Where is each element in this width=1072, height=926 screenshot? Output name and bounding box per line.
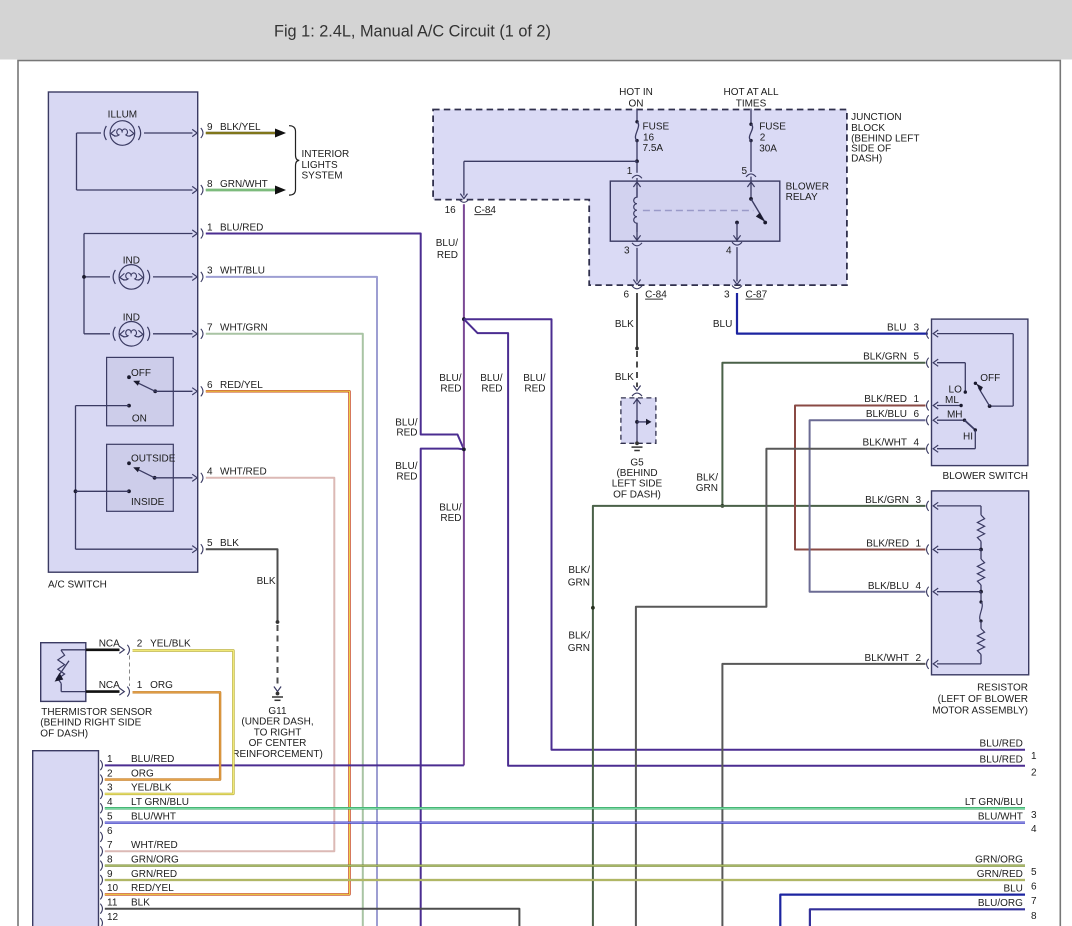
A/C switch pin 6 [192, 380, 263, 396]
svg-text:5: 5 [741, 166, 747, 177]
wire BLU/WHT connector pin5 [105, 821, 1025, 823]
node HOT IN ON [619, 87, 653, 122]
svg-text:6: 6 [1031, 882, 1037, 893]
wire RED/YEL pin6 to connector pin10 [105, 391, 350, 894]
relay pin 5 [741, 166, 756, 187]
svg-text:8: 8 [1031, 911, 1037, 922]
wire relay pin4 to C-87 pin 3 [733, 247, 740, 284]
svg-text:RED: RED [396, 471, 417, 482]
svg-text:YEL/BLK: YEL/BLK [131, 783, 172, 794]
G5 internal [632, 398, 652, 451]
blower switch pin 3 [927, 329, 939, 339]
svg-text:LO: LO [949, 385, 963, 396]
label BLK/GRN x593 upper [568, 565, 590, 589]
node HOT AT ALL TIMES [723, 87, 778, 124]
A/C switch pin 9 [192, 122, 261, 138]
wire WHT/GRN pin7 [206, 334, 363, 926]
blower switch pin 5 [863, 352, 938, 368]
svg-text:16: 16 [643, 132, 655, 143]
svg-text:ORG: ORG [150, 680, 173, 691]
svg-text:6: 6 [914, 409, 920, 420]
bottom connector box [33, 751, 99, 926]
wire INSIDE contact to branch [76, 490, 130, 492]
svg-text:5: 5 [207, 538, 213, 549]
wire GRN/ORG connector pin8 [105, 865, 1025, 867]
svg-text:WHT/RED: WHT/RED [131, 840, 178, 851]
wire illum loop [77, 133, 193, 190]
svg-text:1: 1 [916, 539, 922, 550]
svg-text:3: 3 [207, 266, 213, 277]
svg-text:BLOWER: BLOWER [786, 181, 829, 192]
wire WHT/BLU pin3 [206, 277, 377, 926]
svg-text:ON: ON [629, 99, 644, 110]
svg-text:BLU: BLU [1003, 883, 1022, 894]
label BLU/WHT right 4 [978, 811, 1037, 835]
svg-text:3: 3 [724, 289, 730, 300]
wire BLU/RED pin1 [206, 234, 464, 450]
svg-text:HOT IN: HOT IN [619, 87, 653, 98]
lamp ILLUM [104, 110, 140, 146]
A/C ON/OFF switch box [107, 357, 174, 425]
A/C switch pin 7 [192, 323, 268, 339]
svg-text:8: 8 [207, 179, 213, 190]
svg-text:BLK/GRN: BLK/GRN [863, 352, 907, 363]
svg-text:GRN/ORG: GRN/ORG [131, 854, 179, 865]
svg-text:BLOCK: BLOCK [851, 123, 885, 134]
A/C switch OFF/ON contacts [127, 375, 157, 407]
svg-text:FUSE: FUSE [643, 121, 670, 132]
svg-text:BLU/: BLU/ [439, 503, 461, 514]
svg-text:OFF: OFF [131, 368, 151, 379]
wire BLK/BLU switch pin6 to resistor pin4 [810, 420, 926, 592]
svg-text:7: 7 [207, 323, 213, 334]
relay linkage (dashed) [643, 210, 754, 212]
svg-text:BLU/: BLU/ [436, 238, 458, 249]
svg-text:OFF: OFF [980, 373, 1000, 384]
wire GRN/WHT pin8 [206, 186, 286, 195]
blower relay box [610, 181, 829, 241]
svg-text:WHT/RED: WHT/RED [220, 467, 267, 478]
svg-text:RELAY: RELAY [786, 192, 818, 203]
wire BLK/YEL pin9 [206, 129, 286, 138]
svg-text:3: 3 [107, 783, 113, 794]
svg-text:7: 7 [107, 840, 113, 851]
wire BLK pin5 to G11 [206, 549, 281, 691]
svg-text:BLU/RED: BLU/RED [220, 222, 263, 233]
svg-text:G11: G11 [268, 706, 287, 717]
svg-text:LT GRN/BLU: LT GRN/BLU [131, 797, 189, 808]
svg-text:30A: 30A [759, 144, 777, 155]
A/C switch pin 5 [192, 538, 239, 554]
svg-text:HOT AT ALL: HOT AT ALL [723, 87, 778, 98]
svg-text:BLK/: BLK/ [568, 631, 590, 642]
svg-text:2: 2 [760, 133, 766, 144]
svg-text:RED: RED [396, 428, 417, 439]
wire BLK C-84 pin6 to G5 [615, 293, 641, 391]
wire BLK/WHT switch pin4 to bottom [636, 449, 926, 926]
blower switch pin 6 [866, 409, 938, 425]
svg-text:INTERIOR: INTERIOR [302, 149, 350, 160]
svg-text:BLK: BLK [615, 372, 634, 383]
svg-text:9: 9 [107, 869, 113, 880]
svg-text:INSIDE: INSIDE [131, 497, 165, 508]
svg-text:REINFORCEMENT): REINFORCEMENT) [232, 749, 323, 760]
svg-text:BLK/YEL: BLK/YEL [220, 122, 261, 133]
svg-text:6: 6 [107, 826, 113, 837]
svg-text:Fig 1: 2.4L, Manual A/C Circui: Fig 1: 2.4L, Manual A/C Circuit (1 of 2) [274, 23, 551, 41]
label BLK/GRN x593 lower [568, 631, 590, 655]
label BLU/RED x551 [523, 373, 545, 394]
svg-text:WHT/BLU: WHT/BLU [220, 266, 265, 277]
resistor pin 1 [866, 539, 938, 555]
label G5 [612, 458, 663, 501]
label BLK/GRN x722 [696, 473, 718, 495]
svg-text:10: 10 [107, 883, 119, 894]
wire BLK/RED switch pin1 to resistor pin1 [795, 406, 926, 550]
wire YEL/BLK thermistor pin2 to connector pin3 [105, 651, 234, 794]
connector pin 4 [100, 797, 189, 813]
lamp IND (upper) [113, 256, 149, 290]
relay coil [633, 182, 640, 240]
blower switch pin 1 [864, 394, 938, 411]
wire LT GRN/BLU connector pin4 [105, 807, 1025, 809]
wire BLU C-87 pin3 to blower switch [713, 293, 928, 334]
svg-text:ML: ML [945, 395, 959, 406]
svg-text:G5: G5 [630, 458, 644, 469]
thermistor sensor box [40, 643, 152, 740]
svg-text:LEFT SIDE: LEFT SIDE [612, 479, 663, 490]
svg-text:2: 2 [107, 768, 113, 779]
svg-text:NCA: NCA [99, 680, 120, 691]
svg-text:1: 1 [137, 680, 143, 691]
label BLU/RED x464 mid [439, 373, 461, 394]
ground G11 [232, 692, 323, 760]
wire ON contact to branch [74, 406, 129, 550]
svg-text:TIMES: TIMES [736, 99, 767, 110]
resistor pin 4 [868, 581, 938, 597]
connector pin 10 [100, 883, 174, 899]
svg-text:RED: RED [524, 384, 545, 395]
svg-text:6: 6 [623, 289, 629, 300]
svg-text:1: 1 [914, 394, 920, 405]
resistor box [932, 491, 1029, 717]
fuse 16 7.5A [635, 120, 669, 161]
thermistor symbol [55, 650, 69, 692]
label BLU/RED x464 lower [439, 503, 461, 525]
svg-text:4: 4 [914, 438, 920, 449]
svg-text:2: 2 [916, 653, 922, 664]
svg-text:BLU/WHT: BLU/WHT [131, 811, 176, 822]
svg-text:4: 4 [207, 467, 213, 478]
svg-text:BLU/RED: BLU/RED [131, 754, 174, 765]
wire fuse16 branch to C-84 pin 16 [460, 159, 639, 198]
label BLU/ORG right 8 [978, 898, 1037, 922]
header bar [0, 0, 1072, 60]
svg-text:ON: ON [132, 413, 147, 424]
ground G5 box [621, 393, 656, 443]
svg-text:LIGHTS: LIGHTS [302, 160, 338, 171]
svg-text:LT GRN/BLU: LT GRN/BLU [965, 797, 1023, 808]
svg-text:5: 5 [1031, 867, 1037, 878]
svg-text:(BEHIND RIGHT SIDE: (BEHIND RIGHT SIDE [40, 718, 141, 729]
svg-text:(LEFT OF BLOWER: (LEFT OF BLOWER [938, 694, 1028, 705]
svg-text:BLK/BLU: BLK/BLU [868, 581, 909, 592]
svg-text:BLU/RED: BLU/RED [980, 755, 1023, 766]
wire branch to pin 5 [76, 548, 193, 550]
wire pivot to pin 6 [155, 390, 192, 392]
interior lights system brace [289, 126, 349, 195]
blower switch HI wiper [937, 420, 977, 449]
svg-text:RED: RED [440, 513, 461, 524]
svg-text:(UNDER DASH,: (UNDER DASH, [241, 717, 313, 728]
blower switch internal common [937, 334, 1013, 408]
label BLU/RED right 1 [980, 739, 1037, 763]
label BLU/RED x421 upper [395, 418, 417, 439]
svg-text:WHT/GRN: WHT/GRN [220, 323, 268, 334]
svg-text:BLU: BLU [887, 322, 906, 333]
wire ORG thermistor pin1 to connector pin2 [105, 692, 220, 779]
connector pin 1 [100, 754, 174, 770]
label BLU/RED (pin16 top) [436, 238, 458, 261]
svg-text:YEL/BLK: YEL/BLK [150, 638, 191, 649]
blower switch pin 4 [863, 438, 939, 454]
svg-text:BLU/WHT: BLU/WHT [978, 811, 1023, 822]
thermistor connector dashed link [129, 656, 131, 687]
blower switch OFF contact and arm [974, 373, 1001, 406]
resistor pin 3 [865, 495, 938, 511]
svg-text:BLU: BLU [713, 319, 732, 330]
svg-text:MH: MH [947, 410, 963, 421]
svg-text:12: 12 [107, 912, 119, 923]
wire relay pin3 to C-84 pin 6 [633, 248, 640, 285]
svg-text:SIDE OF: SIDE OF [851, 143, 891, 154]
connector pin 6 [100, 826, 113, 842]
svg-text:RED: RED [440, 384, 461, 395]
svg-text:RED: RED [481, 384, 502, 395]
fuse 2 30A [749, 122, 786, 173]
label LT GRN/BLU right 3 [965, 797, 1037, 821]
svg-text:OF DASH): OF DASH) [40, 728, 88, 739]
resistor elements [937, 506, 985, 664]
wire BLU/ORG right edge 8 [810, 909, 1025, 926]
svg-text:3: 3 [916, 495, 922, 506]
svg-text:NCA: NCA [99, 638, 120, 649]
OUTSIDE/INSIDE contacts [127, 461, 156, 493]
svg-text:BLK/GRN: BLK/GRN [865, 495, 909, 506]
label BLU 3 (switch pin) [887, 322, 919, 333]
svg-text:4: 4 [1031, 824, 1037, 835]
relay pin 1 [627, 161, 642, 187]
thermistor leads NCA [61, 638, 124, 695]
wire BLU/RED C-84 pin16 main vertical [105, 204, 466, 765]
label BLU/RED x421 lower [395, 461, 417, 482]
svg-text:GRN/WHT: GRN/WHT [220, 179, 268, 190]
svg-text:11: 11 [107, 898, 118, 909]
A/C switch pin 1 [192, 222, 263, 238]
svg-text:BLK/RED: BLK/RED [864, 394, 907, 405]
svg-text:GRN: GRN [696, 483, 718, 494]
svg-text:GRN/RED: GRN/RED [977, 869, 1023, 880]
svg-text:7.5A: 7.5A [643, 143, 664, 154]
wire BLK/WHT resistor pin2 to bottom [722, 664, 925, 926]
blower switch box [932, 319, 1029, 482]
svg-text:5: 5 [107, 811, 113, 822]
connector pin 11 [100, 898, 150, 914]
wire pivot to pin 4 [155, 477, 193, 479]
label BLU/RED right 2 [980, 755, 1037, 779]
label BLU right 7 [1003, 883, 1037, 907]
label BLU/RED x508 [480, 373, 502, 394]
svg-text:SYSTEM: SYSTEM [302, 171, 343, 182]
svg-text:GRN: GRN [568, 643, 590, 654]
svg-text:GRN: GRN [568, 578, 590, 589]
svg-text:RED/YEL: RED/YEL [220, 380, 263, 391]
svg-text:OF DASH): OF DASH) [613, 489, 661, 500]
junction block (behind left side of dash) [433, 110, 919, 286]
svg-text:2: 2 [1031, 767, 1037, 778]
connector pin 7 [100, 840, 177, 856]
connector pin 2 [100, 768, 154, 784]
svg-text:8: 8 [107, 854, 113, 865]
wire BLK/GRN switch pin5 net [721, 363, 926, 508]
resistor pin 2 [865, 653, 939, 669]
svg-text:4: 4 [107, 797, 113, 808]
wire WHT/RED pin4 to connector pin7 [105, 478, 334, 852]
svg-text:ILLUM: ILLUM [108, 110, 137, 121]
relay switch (pins 5-4) [733, 182, 767, 240]
svg-text:RED: RED [437, 250, 458, 261]
svg-text:BLK/BLU: BLK/BLU [866, 409, 907, 420]
svg-text:BLU/RED: BLU/RED [980, 739, 1023, 750]
svg-text:(BEHIND: (BEHIND [616, 468, 657, 479]
connector C-84 pin 6 [623, 286, 667, 301]
wire BLU/RED branch to right edge (1) [464, 319, 1025, 750]
wire BLU right edge 7 [780, 895, 1025, 926]
svg-text:ORG: ORG [131, 768, 154, 779]
svg-text:JUNCTION: JUNCTION [851, 112, 902, 123]
svg-text:4: 4 [726, 246, 732, 257]
A/C switch pin 3 [192, 266, 265, 282]
svg-text:MOTOR ASSEMBLY): MOTOR ASSEMBLY) [932, 706, 1028, 717]
A/C switch pin 8 [192, 179, 268, 195]
svg-text:5: 5 [914, 352, 920, 363]
A/C switch box [48, 92, 198, 591]
svg-text:9: 9 [207, 122, 213, 133]
blower switch LO contact [937, 363, 967, 396]
connector pin 5 [100, 811, 176, 827]
connector pin 12 [100, 912, 118, 926]
svg-text:THERMISTOR SENSOR: THERMISTOR SENSOR [41, 707, 152, 718]
label GRN/RED right 6 [977, 869, 1037, 893]
thermistor pin 2 [127, 638, 191, 655]
svg-text:1: 1 [627, 166, 633, 177]
svg-text:OUTSIDE: OUTSIDE [131, 454, 176, 465]
wire BLK/GRN to resistor pin3 [722, 505, 925, 507]
svg-text:GRN/RED: GRN/RED [131, 869, 177, 880]
lamp IND (lower) [113, 312, 149, 346]
svg-text:BLK/WHT: BLK/WHT [865, 653, 909, 664]
svg-text:3: 3 [624, 246, 630, 257]
svg-text:3: 3 [914, 322, 920, 333]
svg-text:RED/YEL: RED/YEL [131, 883, 174, 894]
svg-text:2: 2 [137, 638, 143, 649]
svg-text:1: 1 [1031, 751, 1037, 762]
svg-text:1: 1 [207, 222, 213, 233]
svg-text:OF CENTER: OF CENTER [249, 738, 307, 749]
wire GRN/RED connector pin9 [105, 879, 1025, 881]
wire ind loop [82, 234, 192, 334]
svg-text:A/C SWITCH: A/C SWITCH [48, 580, 107, 591]
svg-text:BLK: BLK [220, 538, 239, 549]
relay pin 3 (coil side) [624, 243, 642, 257]
relay pin 3 [726, 242, 742, 256]
svg-text:BLK: BLK [131, 898, 150, 909]
blower switch MH contact [937, 410, 966, 422]
svg-text:BLK/: BLK/ [568, 565, 590, 576]
connector C-84 pin 16 [445, 199, 497, 216]
svg-text:HI: HI [963, 432, 973, 443]
svg-text:RESISTOR: RESISTOR [977, 683, 1028, 694]
svg-text:TO RIGHT: TO RIGHT [254, 727, 302, 738]
svg-text:BLK/: BLK/ [696, 473, 718, 484]
svg-text:BLK/RED: BLK/RED [866, 539, 909, 550]
wire BLK/GRN left branch to bottom [591, 506, 722, 926]
svg-text:4: 4 [916, 581, 922, 592]
svg-text:3: 3 [1031, 810, 1037, 821]
svg-text:6: 6 [207, 380, 213, 391]
svg-text:GRN/ORG: GRN/ORG [975, 854, 1023, 865]
wire BLK connector pin11 [105, 909, 520, 926]
connector pin 3 [100, 783, 172, 799]
blower switch ML contact [937, 395, 963, 407]
svg-text:BLU/ORG: BLU/ORG [978, 898, 1023, 909]
svg-text:BLK: BLK [615, 319, 634, 330]
A/C switch pin 4 [192, 467, 266, 483]
svg-text:FUSE: FUSE [759, 122, 786, 133]
svg-text:DASH): DASH) [851, 154, 882, 165]
thermistor pin 1 [127, 680, 173, 697]
svg-text:BLOWER SWITCH: BLOWER SWITCH [942, 471, 1028, 482]
connector C-87 pin 3 [724, 286, 768, 301]
wire BLU/RED branch to right edge (2) [464, 319, 1025, 766]
svg-text:BLK/WHT: BLK/WHT [863, 438, 907, 449]
svg-text:BLK: BLK [257, 576, 276, 587]
label GRN/ORG right 5 [975, 854, 1037, 878]
svg-text:7: 7 [1031, 896, 1037, 907]
OUTSIDE/INSIDE switch box [107, 444, 176, 511]
connector pin 8 [100, 854, 179, 870]
wire BLU/RED pin1 lower branch to bottom [421, 449, 464, 926]
svg-text:1: 1 [107, 754, 113, 765]
svg-text:16: 16 [445, 205, 457, 216]
connector pin 9 [100, 869, 177, 885]
